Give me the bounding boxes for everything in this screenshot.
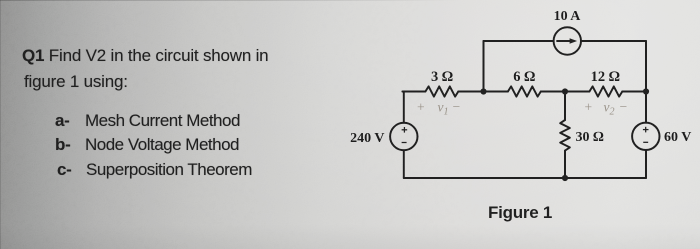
wire: 12ohm to right node <box>622 91 646 93</box>
list item b <box>55 135 70 155</box>
wire: between 3ohm and 6ohm <box>458 91 508 93</box>
wire: 30ohm to bottom wire <box>564 151 566 178</box>
wire: right node down to 60V source <box>645 92 647 123</box>
resistor R3 12ohm zigzag <box>589 86 622 96</box>
list item c <box>57 160 72 180</box>
wire: left branch down to 240V source <box>403 92 404 123</box>
list item a <box>55 111 70 131</box>
wire: bottom horizontal <box>404 177 646 179</box>
wire: main horizontal left segment <box>403 91 426 93</box>
question text line 1 <box>22 46 268 66</box>
question text line 2 <box>24 72 128 92</box>
resistor R4 30ohm vertical zigzag <box>560 120 570 151</box>
wire: node2 down to 30ohm <box>564 92 566 121</box>
wire: between 6ohm and 12ohm <box>541 91 590 93</box>
wire: top loop right vertical <box>645 41 647 92</box>
240V source polarity marks <box>402 127 408 143</box>
node D junction dot (bottom of 30ohm) <box>562 175 568 181</box>
wire: right branch 60V to bottom <box>645 150 647 178</box>
resistor R1 3ohm zigzag <box>425 86 458 96</box>
node C junction dot (right top corner node) <box>643 88 649 94</box>
wire: top loop right horizontal from current source <box>581 40 646 42</box>
voltage source V1 240V circle <box>390 123 417 150</box>
node A junction dot (3ohm/6ohm/top loop) <box>480 88 486 94</box>
figure caption <box>488 203 552 223</box>
wire: 240V source to bottom wire <box>403 150 405 178</box>
60V source polarity marks <box>643 127 649 143</box>
resistor R2 6ohm zigzag <box>508 86 541 96</box>
top dark border edge <box>0 0 460 1</box>
node B junction dot (6ohm/12ohm/30ohm) <box>562 88 568 94</box>
wire: top loop left horizontal to current source <box>484 40 554 42</box>
current source I1 circle <box>554 27 581 54</box>
left dark border edge <box>0 0 1 249</box>
voltage source V2 60V circle <box>632 123 659 150</box>
current source I1 arrow <box>556 38 577 44</box>
wire: top loop left vertical <box>483 41 485 92</box>
